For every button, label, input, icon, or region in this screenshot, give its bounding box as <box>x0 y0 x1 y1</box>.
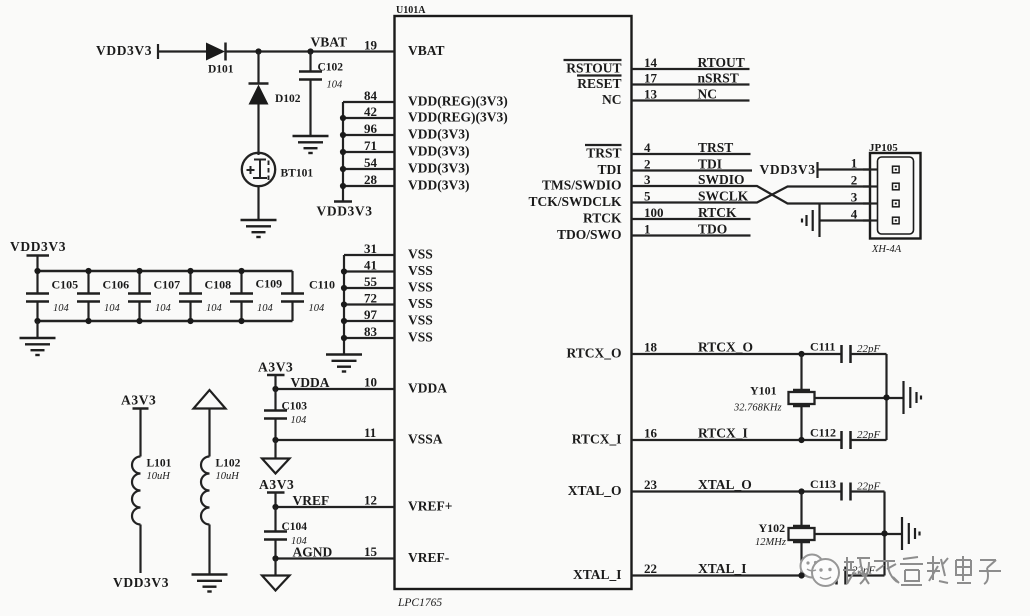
svg-text:VDDA: VDDA <box>291 375 330 390</box>
svg-text:VDD3V3: VDD3V3 <box>96 43 152 58</box>
wire ground to connector pin 4 <box>820 219 871 221</box>
svg-text:VDD(REG)(3V3): VDD(REG)(3V3) <box>408 94 508 109</box>
chip pin name TDI <box>597 162 621 177</box>
watermark logo bubbles <box>801 555 840 587</box>
svg-text:C102: C102 <box>318 62 344 74</box>
svg-text:104: 104 <box>53 303 70 314</box>
svg-text:VSS: VSS <box>408 330 433 345</box>
junction top rail C109 <box>238 268 244 274</box>
chip pin name VSS pin 31 <box>408 247 433 262</box>
svg-text:10uH: 10uH <box>216 471 241 482</box>
wire chip pin 10 VDDA <box>276 388 395 390</box>
pin number 15 <box>364 544 378 559</box>
svg-text:XTAL_I: XTAL_I <box>698 561 747 576</box>
chip pin name RSTOUT with overline <box>564 60 622 76</box>
svg-text:VSS: VSS <box>408 296 433 311</box>
junction bottom rail C107 <box>136 318 142 324</box>
svg-text:4: 4 <box>851 207 858 222</box>
svg-text:VREF: VREF <box>293 493 330 508</box>
svg-text:VSS: VSS <box>408 247 433 262</box>
pin number 84 <box>364 88 378 103</box>
svg-text:18: 18 <box>644 340 658 355</box>
svg-text:TDI: TDI <box>698 157 722 172</box>
svg-text:BT101: BT101 <box>281 168 314 180</box>
svg-text:VSS: VSS <box>408 263 433 278</box>
wire crystal Y102 case to ground <box>815 533 902 535</box>
capacitor C114 <box>806 561 876 585</box>
ground at XTAL crystal (pointing right) <box>902 517 920 550</box>
svg-text:41: 41 <box>364 258 377 273</box>
node TRST net label <box>698 140 733 155</box>
pin number 14 <box>644 55 658 70</box>
svg-text:C113: C113 <box>810 477 836 491</box>
connector pin number 1 <box>851 156 858 171</box>
junction bottom rail C105 <box>34 318 40 324</box>
junction top rail C108 <box>187 268 193 274</box>
chip pin name VSS pin 97 <box>408 313 433 328</box>
junction VSS bus pin 72 <box>341 301 347 307</box>
wire chip pin 71 stub <box>343 151 395 153</box>
pin number 18 <box>644 340 658 355</box>
wire chip pin 3 SWDIO with crossover to connector pin 3 <box>632 186 871 204</box>
capacitor C104 <box>264 521 308 547</box>
chip pin name VDD(REG)(3V3) pin 84 <box>408 94 508 109</box>
wire chip pin 84 stub <box>343 101 395 103</box>
svg-text:VDD(3V3): VDD(3V3) <box>408 178 470 193</box>
battery BT101 <box>242 153 314 186</box>
node nSRST net label <box>698 71 739 86</box>
svg-text:104: 104 <box>104 303 121 314</box>
svg-text:C106: C106 <box>103 278 130 292</box>
ground at RTC crystal (pointing right) <box>904 381 922 414</box>
junction RTCX_I crystal tap <box>798 437 804 443</box>
junction VDD bus pin 71 <box>340 149 346 155</box>
chip pin name VSS pin 72 <box>408 296 433 311</box>
pin number 83 <box>364 324 378 339</box>
node RTOUT net label <box>698 55 745 70</box>
wire chip pin 41 stub <box>344 270 395 272</box>
svg-text:31: 31 <box>364 241 377 256</box>
wire chip pin 23 XTAL_O <box>632 490 842 492</box>
svg-text:VSS: VSS <box>408 280 433 295</box>
chip pin name TDO/SWO <box>557 227 622 242</box>
svg-text:LPC1765: LPC1765 <box>397 597 442 609</box>
svg-text:96: 96 <box>364 121 378 136</box>
svg-text:104: 104 <box>291 415 308 426</box>
svg-text:84: 84 <box>364 88 378 103</box>
svg-text:16: 16 <box>644 426 658 441</box>
svg-text:15: 15 <box>364 544 378 559</box>
chip pin name XTAL_I <box>573 567 622 582</box>
pin number 54 <box>364 155 378 170</box>
svg-text:104: 104 <box>257 303 274 314</box>
junction top rail C106 <box>85 268 91 274</box>
connector pin 1 stub and contact <box>863 166 899 173</box>
svg-text:VDD3V3: VDD3V3 <box>10 239 66 254</box>
svg-text:VREF+: VREF+ <box>408 499 452 514</box>
connector JP105 outer body <box>870 153 921 239</box>
capacitor C102 <box>299 62 343 91</box>
chip pin name TRST with overline <box>585 145 622 161</box>
junction XTAL_O crystal tap <box>798 488 804 494</box>
wire battery to ground <box>257 186 259 219</box>
svg-text:L102: L102 <box>216 458 241 470</box>
ground below L102 <box>192 575 228 592</box>
svg-text:C111: C111 <box>810 340 835 354</box>
chip pin name NC <box>602 92 622 107</box>
svg-text:100: 100 <box>644 205 664 220</box>
svg-text:C112: C112 <box>810 426 836 440</box>
pin number 10 <box>364 375 377 390</box>
svg-text:4: 4 <box>644 140 651 155</box>
wire bottom rail to ground <box>36 321 38 338</box>
svg-text:VDD(REG)(3V3): VDD(REG)(3V3) <box>408 110 508 125</box>
junction bottom rail C109 <box>238 318 244 324</box>
svg-text:VDD3V3: VDD3V3 <box>113 575 169 590</box>
svg-text:XTAL_I: XTAL_I <box>573 567 622 582</box>
svg-text:72: 72 <box>364 291 377 306</box>
ground below cap bank <box>20 338 56 355</box>
power flag VDD3V3 at cap bank <box>10 239 66 256</box>
wire chip pin 4 TRST <box>632 153 751 155</box>
ground at connector pin 4 (pointing left) <box>802 204 820 237</box>
svg-text:13: 13 <box>644 87 658 102</box>
svg-text:NC: NC <box>602 92 622 107</box>
junction VDD bus pin 42 <box>340 115 346 121</box>
pin number 22 <box>644 561 657 576</box>
svg-text:VDD3V3: VDD3V3 <box>760 162 816 177</box>
junction VDD bus pin 28 <box>340 183 346 189</box>
wire chip pin 97 stub <box>344 320 395 322</box>
capacitor C106 <box>77 271 129 321</box>
svg-text:VDD(3V3): VDD(3V3) <box>408 161 470 176</box>
svg-text:5: 5 <box>644 189 651 204</box>
svg-text:VDDA: VDDA <box>408 381 447 396</box>
svg-text:L101: L101 <box>147 458 172 470</box>
junction VSSA node <box>272 437 278 443</box>
svg-text:TDO/SWO: TDO/SWO <box>557 227 622 242</box>
svg-text:RTCX_O: RTCX_O <box>566 346 621 361</box>
crystal Y101 <box>733 354 815 440</box>
node SWCLK net label <box>698 189 749 204</box>
svg-text:12: 12 <box>364 493 377 508</box>
wire VDD3V3 to D101 anode <box>158 50 206 52</box>
svg-text:19: 19 <box>364 38 378 53</box>
connector JP105 type XH-4A <box>871 244 902 255</box>
svg-text:83: 83 <box>364 324 378 339</box>
node RTCX_O net label <box>698 340 753 355</box>
inductor L101 <box>132 409 172 574</box>
svg-text:2: 2 <box>851 173 858 188</box>
svg-text:VBAT: VBAT <box>408 43 445 58</box>
connector JP105 inner body <box>878 157 914 234</box>
wire VDD3V3 to connector pin 1 <box>818 168 871 170</box>
svg-text:U101A: U101A <box>396 5 426 16</box>
node NC net label <box>698 87 718 102</box>
svg-text:C107: C107 <box>154 278 181 292</box>
wire AGND to analog ground <box>274 559 276 576</box>
svg-text:D102: D102 <box>275 93 301 105</box>
pin number 19 <box>364 38 378 53</box>
capacitor C112 <box>810 426 881 450</box>
pin number 72 <box>364 291 377 306</box>
wire XTAL ground rail <box>883 492 885 576</box>
node VREF net label <box>293 493 330 508</box>
power arrow at L102 <box>194 390 226 409</box>
chip pin name RTCX_O <box>566 346 621 361</box>
svg-text:RTCX_O: RTCX_O <box>698 340 753 355</box>
capacitor C113 <box>810 477 881 501</box>
wire chip pin 55 stub <box>344 287 395 289</box>
svg-text:C110: C110 <box>309 278 335 292</box>
node RTCX_I net label <box>698 426 748 441</box>
wire A3V3 to VREF node <box>274 493 276 508</box>
chip pin name VBAT <box>408 43 445 58</box>
pin number 13 <box>644 87 658 102</box>
power flag VDD3V3 (top left) <box>96 43 158 59</box>
svg-text:NC: NC <box>698 87 718 102</box>
svg-text:A3V3: A3V3 <box>121 393 156 408</box>
junction bottom rail C108 <box>187 318 193 324</box>
wire C104 to AGND node <box>274 540 276 559</box>
svg-text:C104: C104 <box>282 521 308 533</box>
svg-text:22: 22 <box>644 561 657 576</box>
svg-text:Y102: Y102 <box>759 521 786 535</box>
wire chip pin 42 stub <box>343 117 395 119</box>
capacitor C109 <box>230 271 282 321</box>
svg-text:D101: D101 <box>208 64 234 76</box>
node VBAT net label <box>311 35 348 50</box>
svg-text:12MHz: 12MHz <box>755 537 786 548</box>
wire D102 to battery BT101 <box>257 105 259 156</box>
wire cap bank bottom rail <box>38 320 293 323</box>
svg-text:14: 14 <box>644 55 658 70</box>
wire VREF to C104 <box>274 507 276 532</box>
chip pin name VSS pin 55 <box>408 280 433 295</box>
svg-text:RTCK: RTCK <box>698 205 737 220</box>
chip pin name VSS pin 83 <box>408 330 433 345</box>
svg-text:C105: C105 <box>52 278 79 292</box>
svg-text:C103: C103 <box>282 401 308 413</box>
svg-text:RTCX_I: RTCX_I <box>572 432 622 447</box>
ground below BT101 <box>241 220 277 237</box>
svg-text:VREF-: VREF- <box>408 550 449 565</box>
junction VSS bus pin 83 <box>341 335 347 341</box>
svg-text:17: 17 <box>644 71 658 86</box>
capacitor C107 <box>128 271 180 321</box>
svg-text:42: 42 <box>364 104 377 119</box>
svg-text:TDI: TDI <box>597 162 621 177</box>
chip pin name VDD(REG)(3V3) pin 42 <box>408 110 508 125</box>
chip pin name XTAL_O <box>568 483 622 498</box>
junction VREF node <box>272 504 278 510</box>
power flag A3V3 at VDDA <box>258 360 293 376</box>
capacitor C108 <box>179 271 231 321</box>
chip pin name VSS pin 41 <box>408 263 433 278</box>
pin number 100 <box>644 205 664 220</box>
pin number 96 <box>364 121 378 136</box>
svg-text:TMS/SWDIO: TMS/SWDIO <box>542 178 622 193</box>
svg-text:VDD3V3: VDD3V3 <box>317 204 373 219</box>
wire chip pin 17 nSRST <box>632 83 750 85</box>
svg-text:10uH: 10uH <box>147 471 172 482</box>
svg-text:XTAL_O: XTAL_O <box>568 483 622 498</box>
svg-text:1: 1 <box>851 156 858 171</box>
svg-text:AGND: AGND <box>293 545 333 560</box>
wire VBAT node down to D102 <box>257 52 259 84</box>
node TDO net label <box>698 222 727 237</box>
svg-text:TRST: TRST <box>586 146 621 161</box>
wire chip pin 31 stub <box>344 254 395 256</box>
wire VDDA to C103 <box>274 389 276 411</box>
pin number 23 <box>644 477 658 492</box>
connector pin number 3 <box>851 190 858 205</box>
wire chip pin 18 RTCX_O <box>632 353 842 355</box>
wire chip pin 1 TDO <box>632 234 751 236</box>
wire chip pin 11 VSSA <box>276 439 395 441</box>
wire chip pin 15 VREF- <box>276 557 395 559</box>
wire VBAT node down to C102 <box>309 52 311 72</box>
capacitor C103 <box>264 401 307 427</box>
pin number 2 <box>644 157 651 172</box>
svg-text:Y101: Y101 <box>750 384 777 398</box>
capacitor C110 <box>281 271 335 321</box>
wire chip pin 22 XTAL_I <box>632 574 837 576</box>
svg-text:VDD(3V3): VDD(3V3) <box>408 144 470 159</box>
svg-text:2: 2 <box>644 157 651 172</box>
wire chip pin 54 stub <box>343 168 395 170</box>
ground at VSS bus <box>326 355 362 372</box>
junction XTAL rail <box>881 530 887 536</box>
pin number 12 <box>364 493 377 508</box>
svg-text:3: 3 <box>644 172 651 187</box>
connector pin number 4 <box>851 207 858 222</box>
pin number 42 <box>364 104 377 119</box>
node SWDIO net label <box>698 172 745 187</box>
junction AGND node <box>272 555 278 561</box>
wire VSSA to analog ground <box>274 440 276 459</box>
wire chip pin 96 stub <box>343 134 395 136</box>
chip pin name VSSA <box>408 432 443 447</box>
wire chip pin 12 VREF+ <box>276 506 395 508</box>
node TDI net label <box>698 157 722 172</box>
connector pin 2 stub and contact <box>863 183 899 190</box>
pin number 17 <box>644 71 658 86</box>
junction VSS bus pin 55 <box>341 285 347 291</box>
svg-text:55: 55 <box>364 274 378 289</box>
pin number 71 <box>364 138 377 153</box>
power flag A3V3 at L101 <box>121 393 156 409</box>
svg-text:A3V3: A3V3 <box>259 477 294 492</box>
svg-text:RTOUT: RTOUT <box>698 55 745 70</box>
svg-text:1: 1 <box>644 222 651 237</box>
power flag A3V3 at VREF <box>259 477 294 493</box>
svg-text:C109: C109 <box>256 277 283 291</box>
node XTAL_O net label <box>698 477 752 492</box>
wire chip pin 2 TDI <box>632 169 753 171</box>
pin number 1 <box>644 222 651 237</box>
power flag VDD3V3 at VDD bus <box>317 202 373 219</box>
wire VDD bus vertical <box>342 102 344 202</box>
wire chip pin 14 RTOUT <box>632 68 750 70</box>
chip pin name VDD(3V3) pin 71 <box>408 144 470 159</box>
wire chip pin 5 SWCLK with crossover to connector pin 2 <box>632 187 871 203</box>
chip pin name RTCX_I <box>572 432 622 447</box>
wire C112 to rail <box>851 439 887 441</box>
svg-text:nSRST: nSRST <box>698 71 739 86</box>
svg-text:RTCX_I: RTCX_I <box>698 426 748 441</box>
svg-text:23: 23 <box>644 477 658 492</box>
connector pin number 2 <box>851 173 858 188</box>
wire D101 cathode to chip pin 19 <box>226 50 395 52</box>
connector pin 3 stub and contact <box>863 200 899 207</box>
analog ground triangle below VSSA <box>262 459 290 474</box>
wire VDD3V3 flag to top rail <box>36 256 38 272</box>
svg-text:104: 104 <box>327 80 344 91</box>
svg-text:TDO: TDO <box>698 222 727 237</box>
junction VSS bus pin 97 <box>341 318 347 324</box>
pin number 28 <box>364 172 378 187</box>
wire crystal Y101 case to ground <box>815 397 904 399</box>
pin number 97 <box>364 307 378 322</box>
wire chip pin 28 stub <box>343 185 395 187</box>
crystal Y102 <box>755 492 815 576</box>
svg-text:XH-4A: XH-4A <box>871 244 902 255</box>
chip pin name VDDA <box>408 381 447 396</box>
svg-text:10: 10 <box>364 375 377 390</box>
pin number 11 <box>364 425 376 440</box>
ground below C102 <box>293 136 329 153</box>
svg-text:RESET: RESET <box>577 76 621 91</box>
svg-text:SWCLK: SWCLK <box>698 189 749 204</box>
wire C114 to rail <box>846 574 885 576</box>
junction VDD bus pin 96 <box>340 132 346 138</box>
node VDDA net label <box>291 375 330 390</box>
wire C103 to VSSA node <box>274 419 276 441</box>
node AGND net label <box>293 545 333 560</box>
wire A3V3 to VDDA node <box>274 375 276 389</box>
node XTAL_I net label <box>698 561 747 576</box>
wire chip pin 13 NC <box>632 99 750 101</box>
chip pin name RTCK <box>583 211 622 226</box>
svg-text:SWDIO: SWDIO <box>698 172 745 187</box>
svg-text:VSSA: VSSA <box>408 432 443 447</box>
wire cap bank top rail <box>38 270 293 273</box>
junction at C102 top <box>307 48 313 54</box>
svg-text:RSTOUT: RSTOUT <box>566 61 621 76</box>
connector pin 4 stub and contact <box>863 217 899 224</box>
connector JP105 refdes <box>869 142 898 154</box>
node VDD3V3 below L101 <box>113 575 169 590</box>
junction at D102 top <box>255 48 261 54</box>
chip pin name VDD(3V3) pin 28 <box>408 178 470 193</box>
inductor L102 <box>201 409 241 575</box>
power flag VDD3V3 at JTAG connector <box>760 162 818 178</box>
capacitor C105 <box>26 271 78 321</box>
svg-text:104: 104 <box>206 303 223 314</box>
chip pin name TMS/SWDIO <box>542 178 622 193</box>
pin number 41 <box>364 258 377 273</box>
chip U101A refdes label <box>396 5 426 16</box>
wire C111 to rail <box>851 353 887 355</box>
watermark text 张飞实战电子 <box>843 556 1001 585</box>
svg-text:32.768KHz: 32.768KHz <box>733 403 782 414</box>
svg-text:54: 54 <box>364 155 378 170</box>
svg-text:JP105: JP105 <box>869 142 898 154</box>
svg-text:104: 104 <box>155 303 172 314</box>
svg-text:71: 71 <box>364 138 377 153</box>
chip pin name TCK/SWDCLK <box>528 194 622 209</box>
